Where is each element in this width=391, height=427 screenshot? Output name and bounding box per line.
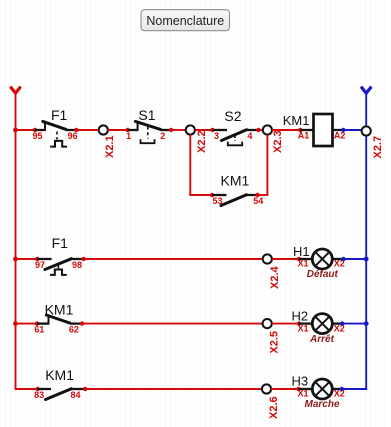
pushbutton S2 3-4 (NO) (210, 108, 260, 145)
svg-text:2: 2 (160, 131, 165, 141)
wire red left rail (15, 95, 17, 390)
wire X2.2 to S2 (195, 129, 213, 131)
wire KM1 to X2.6 (85, 388, 262, 390)
junction rail/row3 (13, 321, 18, 326)
contact KM1 61-62 (NC aux) (34, 301, 84, 334)
svg-text:96: 96 (68, 131, 78, 141)
svg-text:3: 3 (214, 131, 219, 141)
svg-text:KM1: KM1 (45, 301, 74, 317)
svg-text:X2.6: X2.6 (268, 396, 280, 419)
svg-text:Défaut: Défaut (307, 269, 339, 280)
pushbutton S1 1-2 (NC) (125, 107, 173, 143)
wire X2.1 to S1 (108, 129, 128, 131)
svg-text:X2.3: X2.3 (272, 130, 284, 153)
wire H2 to rail (blue) (340, 321, 366, 325)
svg-text:H2: H2 (292, 309, 309, 324)
wire row4 rail corner to KM1 (15, 388, 38, 390)
svg-text:1: 1 (126, 131, 131, 141)
contact F1 95-96 (NC thermal relay) (32, 107, 78, 146)
svg-text:X2.5: X2.5 (269, 331, 281, 354)
lamp H1 Defaut X1-X2 (293, 244, 345, 280)
junction blue rail/row2 (364, 257, 369, 262)
svg-text:X2.1: X2.1 (104, 135, 116, 158)
wire blue right rail (365, 95, 367, 390)
wire H3 to rail corner (blue) (340, 387, 367, 391)
wire X2.5 to H2 (272, 321, 301, 325)
terminal X2.1 (99, 125, 116, 158)
junction rail/row1 (13, 128, 18, 133)
lamp H3 Marche X1-X2 (292, 374, 345, 411)
svg-text:83: 83 (34, 390, 44, 400)
wire S1 to X2.2 (171, 129, 186, 131)
svg-text:54: 54 (253, 196, 263, 206)
svg-text:A2: A2 (334, 131, 346, 141)
svg-text:53: 53 (212, 196, 222, 206)
svg-text:98: 98 (72, 260, 82, 270)
contact F1 97-98 (NO thermal relay) (35, 235, 86, 275)
wire branch bottom right (258, 194, 269, 196)
contact KM1 53-54 (NO latch) (210, 173, 264, 206)
svg-text:Nomenclature: Nomenclature (146, 14, 224, 28)
svg-text:H3: H3 (292, 374, 309, 389)
wire branch X2.2 down (189, 135, 191, 195)
svg-text:F1: F1 (51, 107, 68, 123)
svg-text:A1: A1 (298, 131, 310, 141)
svg-text:S1: S1 (138, 107, 155, 123)
wire branch up to X2.3 (266, 135, 268, 195)
lamp H2 Arret X1-X2 (292, 309, 345, 345)
wire KM1 A2 to X2.7 (blue) (341, 128, 362, 132)
svg-text:KM1: KM1 (45, 367, 74, 383)
svg-text:X1: X1 (298, 389, 309, 399)
wire X2.3 to KM1 coil (272, 128, 302, 132)
wire KM1 to X2.5 (82, 323, 263, 325)
power feed arrow L1 (red) (10, 87, 20, 94)
wire row2 rail to F1 (16, 258, 38, 260)
coil KM1 A1-A2 (283, 113, 346, 146)
svg-text:X2.7: X2.7 (372, 136, 384, 159)
wire H1 to rail (blue) (341, 257, 366, 261)
terminal X2.4 (263, 254, 281, 289)
svg-text:X1: X1 (298, 259, 309, 269)
wire row1 rail to F1 (16, 129, 36, 131)
svg-text:S2: S2 (224, 108, 241, 124)
terminal X2.3 (263, 125, 284, 153)
junction blue rail/row3 (364, 321, 369, 326)
terminal X2.5 (263, 319, 281, 354)
svg-text:X2.4: X2.4 (269, 265, 281, 289)
svg-text:62: 62 (69, 325, 79, 335)
svg-text:95: 95 (32, 131, 42, 141)
svg-text:97: 97 (35, 260, 45, 270)
wire F1 to X2.1 (76, 129, 98, 131)
wire F1 to X2.4 (84, 258, 263, 260)
svg-text:Arrêt: Arrêt (309, 334, 335, 345)
svg-text:KM1: KM1 (221, 173, 250, 189)
wire X2.4 to H1 (272, 257, 301, 261)
svg-text:84: 84 (71, 390, 81, 400)
svg-text:Marche: Marche (304, 399, 339, 410)
svg-text:X2.2: X2.2 (196, 130, 208, 153)
wire S2 to X2.3 (258, 129, 262, 131)
contact KM1 83-84 (NO aux) (34, 367, 87, 400)
wire branch bottom left (189, 194, 212, 196)
wire X2.6 to H3 (271, 387, 301, 391)
svg-text:61: 61 (34, 325, 44, 335)
terminal X2.6 (262, 384, 280, 419)
svg-text:F1: F1 (52, 235, 69, 251)
terminal X2.2 (186, 125, 208, 153)
svg-text:KM1: KM1 (283, 113, 310, 128)
svg-text:H1: H1 (293, 244, 310, 259)
terminal X2.7 on rail (362, 126, 385, 158)
svg-text:X1: X1 (298, 323, 309, 333)
wire row3 rail to KM1 (16, 323, 38, 325)
junction rail/row2 (13, 257, 18, 262)
Nomenclature button (141, 10, 230, 31)
svg-text:4: 4 (247, 131, 252, 141)
power feed arrow N (blue) (361, 87, 371, 94)
